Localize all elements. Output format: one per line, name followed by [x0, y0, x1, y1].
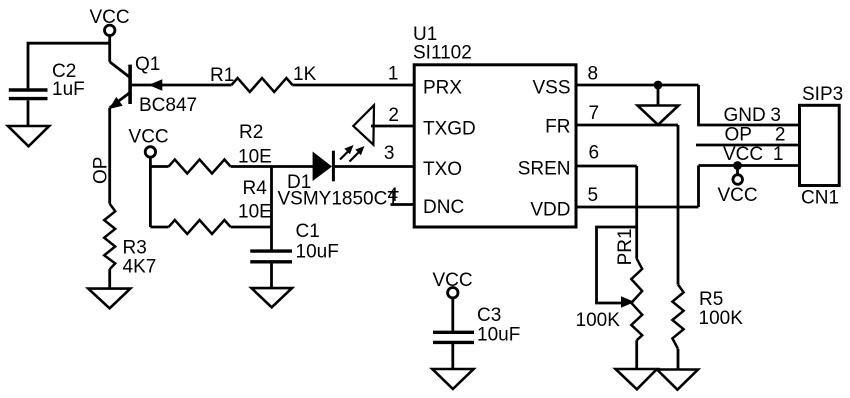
wire VSS corner to connector GND	[699, 85, 800, 125]
svg-text:SI1102: SI1102	[413, 43, 472, 64]
svg-text:VSS: VSS	[532, 78, 570, 99]
resistor R5	[672, 285, 683, 349]
capacitor C2	[9, 90, 48, 99]
LED D1 emission arrow 2	[350, 152, 360, 162]
VCC terminal circle (R2/R4)	[145, 147, 155, 157]
wire VDD up to VCC line	[697, 166, 700, 208]
svg-text:PR1: PR1	[615, 228, 636, 265]
transistor Q1 base arrowhead	[149, 79, 163, 90]
junction dot (VSS/ground)	[654, 81, 663, 90]
wire R2 to LED D1 anode	[231, 165, 314, 168]
VCC terminal circle (right)	[733, 175, 743, 185]
wire U1 pin 7 (FR)	[576, 124, 678, 127]
svg-text:R2: R2	[239, 122, 263, 143]
potentiometer PR1 body	[631, 259, 642, 341]
svg-text:TXGD: TXGD	[423, 119, 476, 140]
wire dot to ground	[657, 85, 660, 105]
resistor R3	[104, 204, 115, 269]
svg-text:10uF: 10uF	[477, 325, 520, 346]
LED D1 triangle	[313, 152, 332, 182]
svg-text:100K: 100K	[699, 308, 744, 329]
svg-text:PRX: PRX	[423, 78, 462, 99]
svg-text:OP: OP	[725, 125, 752, 146]
open triangle (TXGD indicator)	[353, 105, 374, 145]
svg-text:8: 8	[588, 64, 599, 85]
svg-text:C1: C1	[296, 221, 320, 242]
svg-text:BC847: BC847	[139, 95, 197, 116]
capacitor C3	[433, 332, 474, 342]
wire C3 to ground	[451, 344, 454, 369]
ground (R3)	[88, 289, 130, 309]
wire VCC to C3	[451, 298, 454, 331]
svg-text:CN1: CN1	[801, 188, 839, 209]
svg-text:4: 4	[388, 185, 399, 206]
resistor R1	[232, 78, 293, 92]
svg-text:6: 6	[589, 143, 600, 164]
svg-text:VSMY1850CT: VSMY1850CT	[278, 189, 400, 210]
wire dot to VCC terminal	[736, 166, 739, 175]
svg-text:3: 3	[770, 105, 781, 126]
VCC terminal circle (C3)	[448, 288, 458, 298]
junction dot (VCC)	[733, 161, 742, 170]
connector CN1 box	[800, 105, 840, 185]
svg-text:GND: GND	[724, 105, 766, 126]
svg-text:VCC: VCC	[717, 185, 757, 206]
wire Q1 base to R1	[132, 84, 232, 87]
transistor Q1 emitter arrowhead	[109, 97, 123, 109]
ground (C3)	[432, 369, 473, 389]
wire C2 to ground	[27, 100, 30, 126]
wire VCC terminal down to Q1 collector corner	[108, 36, 111, 62]
svg-text:SIP3: SIP3	[802, 84, 843, 105]
svg-text:7: 7	[589, 103, 600, 124]
wire PR1 to ground	[635, 340, 638, 369]
ground (R5)	[657, 370, 698, 390]
ground (C1)	[251, 288, 292, 307]
svg-text:R5: R5	[699, 289, 723, 310]
svg-text:R1: R1	[210, 65, 234, 86]
svg-text:5: 5	[588, 185, 599, 206]
svg-text:C3: C3	[477, 305, 501, 326]
wire corner to R4	[150, 226, 168, 229]
svg-text:VCC: VCC	[723, 144, 763, 165]
svg-text:TXO: TXO	[423, 159, 462, 180]
wire SREN down to PR1	[635, 166, 638, 259]
wire U1 pin 6 (SREN)	[576, 165, 637, 168]
resistor R4	[169, 220, 231, 234]
transistor Q1 emitter diagonal	[110, 93, 130, 108]
VCC terminal circle (top left)	[105, 25, 115, 35]
svg-text:FR: FR	[545, 117, 570, 138]
wire VCC branch to C2	[28, 43, 110, 88]
ground (C2)	[8, 126, 49, 146]
svg-text:VCC: VCC	[129, 127, 169, 148]
svg-text:2: 2	[388, 105, 399, 126]
wire node down to C1	[270, 167, 273, 250]
LED D1 emission arrow 1	[340, 152, 348, 160]
IC U1 box	[414, 65, 576, 227]
wire VCC line to connector pin 1	[699, 164, 800, 167]
svg-text:Q1: Q1	[135, 54, 160, 75]
transistor Q1 collector diagonal	[110, 62, 130, 78]
wire U1 pin 5 (VDD)	[576, 206, 699, 209]
wire triangle to U1 pin 2	[371, 125, 414, 128]
LED D1 cathode bar	[332, 151, 335, 182]
svg-text:R3: R3	[123, 238, 147, 259]
wire U1 pin 4 stub (DNC)	[391, 203, 415, 206]
wire R1 to U1 pin 1	[293, 84, 415, 87]
transistor Q1 body bar	[128, 65, 132, 104]
svg-text:4K7: 4K7	[123, 257, 157, 278]
ground (VSS)	[638, 106, 679, 125]
svg-text:3: 3	[384, 143, 395, 164]
svg-text:R4: R4	[243, 178, 268, 199]
svg-text:10E: 10E	[238, 202, 272, 223]
svg-text:1: 1	[773, 144, 784, 165]
wire R5 to ground	[677, 349, 680, 370]
svg-text:OP: OP	[91, 157, 112, 184]
wire branch to R2	[150, 165, 168, 168]
svg-text:1: 1	[388, 64, 399, 85]
ground (PR1)	[616, 369, 658, 389]
svg-text:100K: 100K	[576, 310, 621, 331]
svg-text:VDD: VDD	[530, 200, 570, 221]
svg-text:10E: 10E	[238, 147, 272, 168]
wire Q1 emitter to R3 (OP net)	[108, 108, 111, 204]
wire D1 cathode to U1 pin 3	[334, 165, 414, 168]
resistor R2	[169, 160, 231, 174]
wire R3 to ground	[108, 269, 111, 288]
wire R4 to C1 node	[231, 226, 272, 229]
svg-text:SREN: SREN	[518, 159, 571, 180]
svg-text:10uF: 10uF	[296, 242, 339, 263]
svg-text:1K: 1K	[293, 64, 317, 85]
wire VCC terminal down to R4 row	[149, 157, 152, 227]
PR1 wiper loop wire	[597, 227, 637, 303]
wire FR down to R5	[677, 125, 680, 285]
svg-text:2: 2	[775, 125, 786, 146]
svg-text:DNC: DNC	[423, 197, 464, 218]
wire U1 pin 8 (VSS)	[576, 84, 699, 87]
wire C1 to ground	[270, 264, 273, 289]
wire OP to connector pin 2	[696, 144, 800, 147]
svg-text:1uF: 1uF	[52, 79, 85, 100]
capacitor C1	[250, 251, 292, 262]
PR1 wiper arrowhead	[621, 296, 635, 307]
